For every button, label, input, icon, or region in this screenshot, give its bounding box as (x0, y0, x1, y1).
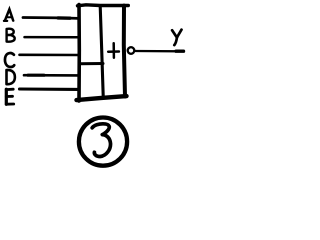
inner horizontal divider (80, 62, 104, 65)
wire input B (25, 36, 79, 39)
wire input C (20, 53, 79, 56)
input label D (7, 70, 15, 84)
plus sign (112, 43, 115, 57)
output label Y (172, 30, 181, 45)
wire input E (20, 87, 79, 91)
comparator box: right edge (124, 6, 125, 97)
comparator box: top edge (78, 5, 129, 6)
output arrowhead (176, 50, 184, 53)
wire input D (24, 74, 79, 77)
inversion bubble (128, 47, 135, 54)
inner vertical divider (100, 6, 103, 96)
gate number 3 (92, 124, 110, 157)
comparator box: left edge (77, 5, 81, 102)
input label B (7, 29, 15, 42)
input label C (5, 53, 14, 67)
input label A (4, 9, 13, 21)
comparator box: bottom edge (77, 96, 127, 100)
wire input A (23, 16, 79, 20)
gate number circle (79, 118, 127, 166)
output wire Y (136, 50, 182, 53)
input label E (6, 89, 13, 104)
